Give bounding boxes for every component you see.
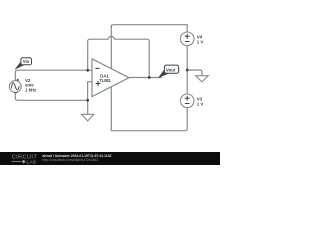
voltage source V4 circle bbox=[180, 32, 194, 46]
V2 sine waveform glyph bbox=[11, 83, 19, 90]
svg-text:1 V: 1 V bbox=[197, 101, 204, 106]
op-amp OA1 triangle body bbox=[92, 59, 129, 97]
node: mid-supply junction dot bbox=[186, 69, 189, 72]
wire: V3 bottom to negative supply rail to op-amp V- pin bbox=[111, 87, 187, 131]
svg-text:Vin: Vin bbox=[23, 59, 30, 64]
node: ground rail junction dot bbox=[86, 99, 89, 102]
V3 minus sign bbox=[185, 103, 190, 105]
op-amp inverting input minus sign bbox=[95, 67, 99, 69]
ground symbol left triangle bbox=[82, 114, 94, 121]
wire: op-amp output to Vout flag bbox=[129, 77, 162, 79]
node: output feedback junction dot bbox=[148, 76, 151, 79]
svg-text:1 kHz: 1 kHz bbox=[25, 88, 36, 93]
voltage source V2 circle (sine source) bbox=[9, 81, 21, 93]
watermark CircuitLab logo LAB row bbox=[12, 160, 26, 163]
wire: feedback horizontal to output drop bbox=[114, 39, 149, 77]
wire: feedback vertical from inverting input node up bbox=[88, 39, 109, 70]
V4 minus sign bbox=[185, 41, 190, 43]
V4 plus sign bbox=[185, 34, 190, 39]
wire: op-amp non-inverting input stub down to ground rail bbox=[88, 82, 92, 101]
watermark bar background bbox=[0, 152, 220, 165]
node: inverting input junction dot bbox=[86, 69, 89, 72]
ground symbol right (mid-supply) bbox=[196, 76, 209, 82]
wire: Vin node to op-amp inverting input rail bbox=[15, 70, 92, 80]
V3 plus sign bbox=[185, 96, 190, 101]
wire: V4 bottom to V3 top (mid-supply rail) bbox=[186, 46, 188, 94]
Vout flag pointer bbox=[159, 70, 169, 78]
wire: feedback hop over V+ supply line bbox=[108, 36, 114, 39]
wire: ground rail from V2 bottom to ground node bbox=[15, 92, 87, 100]
svg-text:Vout: Vout bbox=[166, 67, 176, 72]
wire: op-amp V+ pin up to top rail bbox=[110, 25, 112, 69]
voltage source V3 circle bbox=[180, 94, 194, 108]
V2 plus sign bbox=[17, 79, 19, 81]
svg-text:1 V: 1 V bbox=[197, 39, 204, 44]
Vin flag box bbox=[21, 58, 32, 65]
wire: mid-supply node to right ground bbox=[187, 70, 202, 76]
op-amp non-inverting input plus sign bbox=[96, 81, 101, 86]
svg-text:LAB: LAB bbox=[27, 160, 37, 165]
svg-text:TL081: TL081 bbox=[99, 78, 111, 83]
Vout flag box bbox=[164, 65, 178, 73]
ground symbol left stem bbox=[87, 100, 89, 114]
Vin flag pointer bbox=[15, 62, 24, 69]
svg-text:http://circuitlab.com/c8pbhz72: http://circuitlab.com/c8pbhz72v2462 bbox=[42, 158, 98, 162]
V2 minus sign bbox=[14, 92, 17, 94]
wire: top supply rail to V4 top bbox=[111, 25, 187, 32]
